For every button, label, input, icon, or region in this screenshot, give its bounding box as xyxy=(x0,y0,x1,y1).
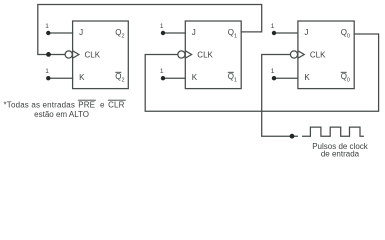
flip-flop U3 box (Q0 stage) xyxy=(298,21,354,89)
svg-text:1: 1 xyxy=(45,68,49,75)
overline PRE xyxy=(78,99,96,101)
wire: Q0 output to U2 CLK (feedback via right side and bottom row) xyxy=(145,34,378,111)
flip-flop U2 box (Q1 stage) xyxy=(185,21,241,89)
svg-text:de entrada: de entrada xyxy=(321,150,360,159)
svg-text:1: 1 xyxy=(160,23,164,30)
svg-text:K: K xyxy=(79,73,85,82)
U1 CLK edge triangle xyxy=(73,51,79,58)
U3 CLK bubble xyxy=(290,51,297,58)
U2 CLK edge triangle xyxy=(185,51,191,58)
U3 J input terminal dot xyxy=(272,31,276,35)
svg-text:CLK: CLK xyxy=(310,50,326,59)
svg-text:J: J xyxy=(304,28,308,37)
wire: U1 J input xyxy=(48,32,72,34)
U2 CLK bubble xyxy=(178,51,185,58)
clock input waveform xyxy=(303,127,364,136)
svg-text:Q1: Q1 xyxy=(228,28,237,40)
svg-text:*Todas as entradasPREeCLR: *Todas as entradasPREeCLR xyxy=(4,101,125,110)
U3 K input terminal dot xyxy=(272,76,276,80)
svg-text:Q0: Q0 xyxy=(341,72,350,84)
clock input terminal dot xyxy=(290,134,295,139)
svg-text:CLK: CLK xyxy=(197,50,213,59)
flip-flop U1 box (Q2 stage) xyxy=(73,21,129,89)
overline for U1 Q2-bar xyxy=(115,71,121,73)
svg-text:K: K xyxy=(304,73,310,82)
svg-text:1: 1 xyxy=(160,68,164,75)
wire: U2 K input xyxy=(163,77,185,79)
svg-text:1: 1 xyxy=(45,23,49,30)
svg-text:Q2: Q2 xyxy=(115,28,124,40)
svg-text:J: J xyxy=(192,28,196,37)
U3 CLK edge triangle xyxy=(298,51,304,58)
svg-text:K: K xyxy=(192,73,198,82)
U1 J input terminal dot xyxy=(46,31,50,35)
wire: clock input riser to U3 CLK xyxy=(262,55,298,137)
wire: Q1 output to U1 CLK (top feedback) xyxy=(38,5,262,55)
overline CLR xyxy=(108,99,126,101)
svg-text:CLK: CLK xyxy=(85,50,101,59)
wire: U2 J input xyxy=(163,32,185,34)
U2 J input terminal dot xyxy=(161,31,165,35)
wire: U3 K input xyxy=(274,77,298,79)
svg-text:J: J xyxy=(79,28,83,37)
svg-text:Q0: Q0 xyxy=(341,28,350,40)
svg-text:Q2: Q2 xyxy=(115,72,124,84)
svg-text:estão em ALTO: estão em ALTO xyxy=(34,110,89,119)
U2 K input terminal dot xyxy=(161,76,165,80)
wire: U3 J input xyxy=(274,32,298,34)
overline for U2 Q1-bar xyxy=(228,71,234,73)
U1 CLK bubble xyxy=(65,51,72,58)
svg-text:1: 1 xyxy=(271,23,275,30)
overline for U3 Q0-bar xyxy=(341,71,347,73)
wire: U1 K input xyxy=(48,77,72,79)
svg-text:1: 1 xyxy=(271,68,275,75)
junction dot on U1 CLK wire xyxy=(46,52,51,57)
svg-text:Q1: Q1 xyxy=(228,72,237,84)
U1 K input terminal dot xyxy=(46,76,50,80)
